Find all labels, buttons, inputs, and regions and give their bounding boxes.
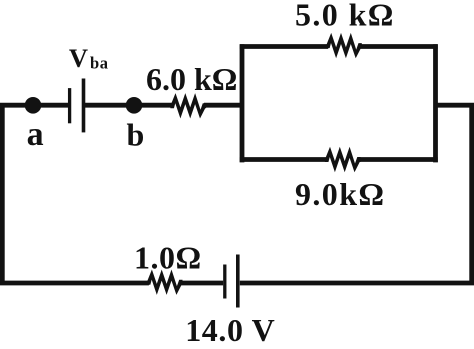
svg-text:9.0kΩ: 9.0kΩ [295, 176, 385, 212]
svg-text:5.0 kΩ: 5.0 kΩ [295, 0, 395, 33]
svg-text:1.0Ω: 1.0Ω [134, 240, 202, 276]
svg-text:b: b [127, 117, 145, 153]
svg-text:a: a [27, 116, 44, 153]
svg-text:ba: ba [90, 54, 109, 73]
svg-text:14.0 V: 14.0 V [185, 312, 275, 348]
svg-text:V: V [69, 43, 88, 73]
svg-text:6.0 kΩ: 6.0 kΩ [146, 61, 237, 97]
